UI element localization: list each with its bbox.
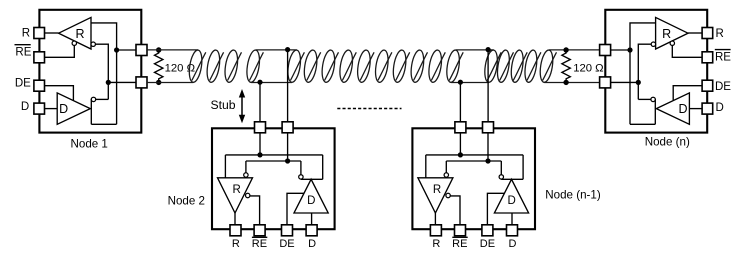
node n pin label RE overline	[715, 49, 731, 51]
wire bus A tap flat	[456, 49, 494, 51]
pin R square	[230, 225, 241, 236]
wire receiver output to R pin	[234, 213, 236, 225]
wire line A	[225, 154, 322, 156]
junction dot bus A	[114, 47, 119, 52]
stub wire to node 2 terminal 1	[259, 82, 261, 122]
twisted pair crossing	[228, 52, 242, 80]
svg-text:D: D	[509, 238, 517, 250]
twisted pair loop	[391, 49, 408, 83]
bubble receiver enable	[246, 193, 250, 197]
node 2 transceiver	[212, 122, 335, 236]
svg-text:R: R	[75, 27, 84, 41]
svg-text:Node (n-1): Node (n-1)	[545, 189, 601, 202]
pin RE square	[254, 225, 265, 236]
twisted pair exit loop	[538, 49, 555, 83]
wire line B to receiver bubble	[245, 161, 247, 173]
stub wire to node 2 terminal 2	[287, 50, 289, 122]
wire bus B from node 1 terminal	[147, 82, 193, 84]
twisted pair crossing	[513, 52, 527, 80]
termination resistor right bottom junction dot	[563, 80, 568, 85]
stub length arrow	[239, 89, 245, 123]
wire dot to terminal B	[108, 81, 136, 83]
twisted pair loop	[509, 49, 525, 83]
junction dot stub 4	[486, 47, 491, 52]
node (n-1) transceiver (copy of node 2 guts)	[412, 122, 535, 236]
twisted pair loop	[427, 49, 444, 83]
svg-text:R: R	[716, 28, 724, 40]
termination resistor left bottom junction dot	[156, 80, 161, 85]
twisted pair crossing	[307, 52, 321, 80]
junction dot stub 1	[257, 80, 262, 85]
wire RE to receiver enable	[45, 45, 75, 57]
svg-text:R: R	[662, 27, 671, 41]
driver output bar	[301, 178, 323, 180]
wire bus B tap flat	[451, 82, 489, 84]
bubble receiver input B	[91, 42, 95, 46]
twisted pair crossing	[290, 52, 304, 80]
twisted pair loop	[409, 49, 426, 83]
svg-text:R: R	[433, 184, 441, 196]
node 1 pin label RE overline	[15, 44, 31, 46]
wire DE to driver enable	[45, 86, 74, 101]
bubble driver output	[299, 175, 303, 179]
svg-text:R: R	[22, 27, 30, 39]
svg-text:DE: DE	[15, 78, 31, 90]
twisted pair loop	[374, 49, 391, 83]
svg-text:RE: RE	[15, 47, 31, 59]
bubble receiver enable	[72, 41, 76, 45]
twisted pair crossing	[249, 52, 263, 80]
pin DE square	[34, 80, 45, 91]
twisted pair cable	[192, 49, 557, 83]
twisted pair crossing	[543, 52, 557, 80]
termination resistor 120 ohm left: top junction dot	[156, 47, 161, 52]
stub wire to node n-1 terminal 2	[487, 50, 489, 122]
wire receiver enable to RE	[250, 196, 260, 225]
node 2 box	[212, 128, 335, 229]
junction dot line A	[257, 152, 262, 157]
twisted pair loop	[356, 49, 373, 83]
svg-text:D: D	[716, 102, 724, 114]
twisted pair crossing	[431, 52, 445, 80]
svg-text:R: R	[232, 184, 240, 196]
twisted pair loop	[320, 49, 337, 83]
twisted pair crossing	[325, 52, 339, 80]
wire bus B tap flat	[251, 82, 292, 84]
svg-text:Node (n): Node (n)	[645, 135, 690, 148]
svg-text:Stub: Stub	[211, 98, 236, 112]
wire line A to receiver	[224, 155, 226, 178]
wire D pin to driver	[311, 213, 313, 225]
twisted pair crossing	[527, 52, 541, 80]
twisted pair crossing	[500, 52, 514, 80]
wire bus B to node n terminal	[544, 82, 599, 84]
bus terminal A square	[136, 45, 147, 56]
termination resistor right top junction dot	[563, 47, 568, 52]
twisted pair tap section at node 2	[245, 49, 262, 83]
twisted pair crossing	[192, 52, 206, 80]
resistor R1 zigzag	[155, 50, 163, 82]
twisted pair crossing	[449, 52, 463, 80]
junction dot stub 3	[458, 80, 463, 85]
node 2 pin label RE overline	[252, 236, 267, 238]
svg-text:RE: RE	[252, 238, 267, 250]
wire DE to driver enable	[287, 193, 304, 225]
stub wire to node n-1 terminal 1	[459, 82, 461, 122]
wire line B	[246, 160, 301, 162]
svg-text:DE: DE	[279, 238, 294, 250]
twisted pair loop	[338, 49, 355, 83]
junction dot line B	[285, 158, 290, 163]
pin D square	[306, 225, 317, 236]
wire D pin to driver	[45, 108, 58, 110]
twisted pair crossing	[487, 52, 501, 80]
svg-text:D: D	[678, 102, 687, 116]
pin DE square	[282, 225, 293, 236]
bus terminal 1 square	[255, 122, 266, 133]
svg-text:D: D	[508, 195, 516, 207]
wire R pin to receiver	[45, 32, 59, 34]
twisted pair loop	[523, 49, 539, 83]
svg-text:RE: RE	[452, 238, 467, 250]
svg-text:D: D	[307, 195, 315, 207]
twisted pair crossing	[396, 52, 410, 80]
svg-text:DE: DE	[715, 81, 731, 93]
wire dot to terminal A	[117, 49, 136, 51]
twisted pair loop	[496, 49, 512, 83]
twisted pair crossing	[342, 52, 356, 80]
junction dot bus B	[106, 80, 111, 85]
wire driver direct to line A	[322, 155, 324, 179]
twisted pair tap section at node (n-1)	[445, 49, 462, 83]
node n-1 pin label RE overline	[452, 236, 467, 238]
driver U2B triangle	[294, 179, 328, 213]
bus terminal B square	[136, 77, 147, 88]
resistor R2 zigzag	[562, 50, 570, 82]
twisted pair entry loop	[187, 49, 204, 83]
svg-text:R: R	[432, 238, 440, 250]
pin RE square	[34, 52, 45, 63]
continuation dashed line	[337, 108, 401, 110]
svg-text:D: D	[308, 238, 316, 250]
junction dot stub 2	[285, 47, 290, 52]
driver U1B triangle	[57, 93, 90, 124]
wire receiver input A	[91, 23, 117, 124]
receiver U2A triangle	[218, 178, 253, 213]
wire receiver input B	[95, 44, 108, 99]
wire driver bubble to bus B	[96, 98, 109, 100]
bubble receiver input B	[244, 173, 248, 177]
pin D square	[34, 103, 45, 114]
node n transceiver (mirrored node 1 guts)	[600, 10, 713, 133]
bus terminal 2 square	[282, 122, 293, 133]
node 1 box	[39, 10, 141, 133]
wire driver bubble to line B	[300, 161, 302, 175]
svg-text:D: D	[59, 102, 68, 116]
node 1 transceiver	[34, 10, 147, 133]
twisted pair loop	[302, 49, 319, 83]
wire driver direct to bus A	[91, 123, 116, 125]
svg-text:RE: RE	[715, 52, 731, 64]
svg-text:D: D	[21, 101, 29, 113]
svg-text:DE: DE	[480, 238, 495, 250]
svg-text:120 Ω: 120 Ω	[573, 62, 603, 74]
pin R square	[34, 28, 45, 39]
svg-text:R: R	[232, 238, 240, 250]
twisted pair loop	[205, 49, 222, 83]
wire terminal 1 down	[259, 133, 261, 155]
twisted pair loop	[223, 49, 240, 83]
twisted pair crossing	[414, 52, 428, 80]
twisted pair crossing	[210, 52, 224, 80]
wire bus A tap flat	[256, 49, 297, 51]
receiver U1A triangle	[59, 17, 91, 49]
bubble driver output B	[91, 97, 95, 101]
twisted pair crossing	[378, 52, 392, 80]
wire bus A from node 1 terminal	[147, 49, 198, 51]
wire terminal 2 down	[287, 133, 289, 161]
driver output bar	[90, 99, 92, 124]
svg-text:Node 1: Node 1	[71, 138, 108, 151]
twisted pair crossing	[360, 52, 374, 80]
wire bus A to node n terminal	[549, 49, 600, 51]
svg-text:Node 2: Node 2	[168, 194, 205, 207]
